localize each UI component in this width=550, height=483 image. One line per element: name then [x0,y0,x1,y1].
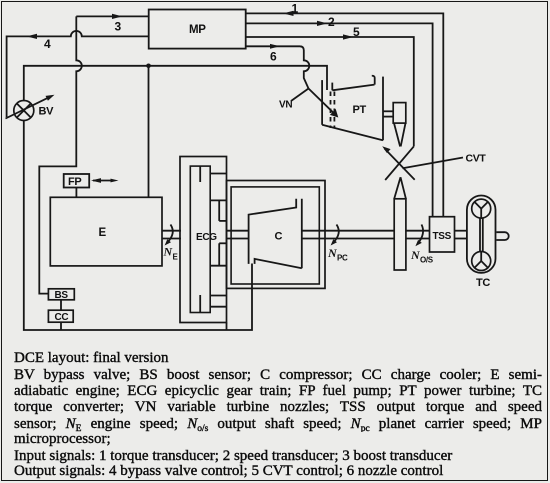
wire 2 (speed transducer input) [246,15,433,217]
variable nozzles VN (dashed) [331,92,335,129]
wire 3 (boost transducer input, horizontal into MP) [76,14,148,34]
air pipe: compressor outlet down, along bottom, up through BV [24,121,252,331]
wire 5 (CVT control output) [246,25,414,146]
svg-text:E: E [99,227,107,239]
wire 3 riser from boost sensor BS [39,16,82,293]
power turbine PT [322,76,383,141]
VN label and actuator arrow [279,89,338,118]
svg-text:5: 5 [353,25,360,39]
boost sensor BS [48,289,74,310]
CVT upper pulley [383,103,406,147]
svg-text:TC: TC [476,277,490,289]
wire 6 (nozzle control output) [246,44,310,89]
fuel pump FP [64,174,89,197]
svg-text:1: 1 [292,2,299,16]
svg-text:CC: CC [55,312,69,323]
CVT label pointer [403,153,487,169]
svg-text:PC: PC [337,254,348,263]
caption line 3 [14,383,542,399]
caption line 1 [14,350,542,367]
caption line 7 [14,448,542,465]
svg-text:ECG: ECG [196,232,217,243]
svg-text:E: E [173,253,179,262]
TC output stub [496,232,508,240]
CVT lower pulley [394,177,406,270]
shaft TSS to TC [455,231,467,239]
compressor housing [227,181,326,289]
torque converter TC [467,196,496,290]
svg-text:TSS: TSS [433,231,452,242]
svg-text:MP: MP [189,24,206,36]
svg-text:2: 2 [328,15,335,29]
wire 1 (torque transducer input) [246,2,444,217]
charge cooler CC [48,310,73,330]
svg-text:BV: BV [39,106,55,118]
svg-text:4: 4 [44,37,51,51]
air pipe: BV up to manifold, manifold to engine / PT bypass [24,64,327,198]
CVT belt cross [382,146,415,180]
torque and speed sensor TSS [430,217,455,252]
caption line 6 [14,431,542,448]
FP rack arrow [91,178,119,183]
compressor C rotor [249,199,302,269]
shaft ECG to C [227,231,249,239]
svg-text:O/S: O/S [420,256,434,265]
microprocessor MP [149,10,246,49]
svg-text:VN: VN [279,100,292,111]
epicyclic gear train ECG [180,157,227,331]
wire 4 (bypass valve control output) [7,31,149,117]
output shaft pulley to TSS, N_O/S [406,225,434,265]
bypass valve BV [6,95,55,121]
svg-text:FP: FP [68,176,81,188]
svg-text:BS: BS [55,290,69,301]
engine output shaft N_E [162,225,181,262]
caption line 2 [14,367,542,383]
svg-text:3: 3 [115,20,122,34]
caption line 8 [14,463,542,480]
engine E [50,197,162,266]
svg-text:C: C [275,231,283,243]
svg-text:CVT: CVT [466,153,487,165]
caption line 5 [14,416,542,432]
svg-text:PT: PT [353,104,367,116]
caption line 4 [14,399,542,415]
shaft C to CVT pulley, planet carrier speed N_PC [302,225,394,263]
svg-text:6: 6 [270,50,277,64]
